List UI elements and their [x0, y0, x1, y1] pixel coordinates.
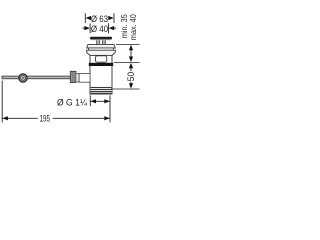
svg-text:max. 40: max. 40: [129, 14, 138, 40]
svg-text:Ø G 1¼: Ø G 1¼: [57, 98, 88, 109]
svg-text:50: 50: [126, 72, 136, 82]
svg-text:195: 195: [40, 114, 51, 124]
svg-text:Ø 40: Ø 40: [91, 24, 108, 35]
svg-text:min. 35: min. 35: [120, 14, 129, 39]
